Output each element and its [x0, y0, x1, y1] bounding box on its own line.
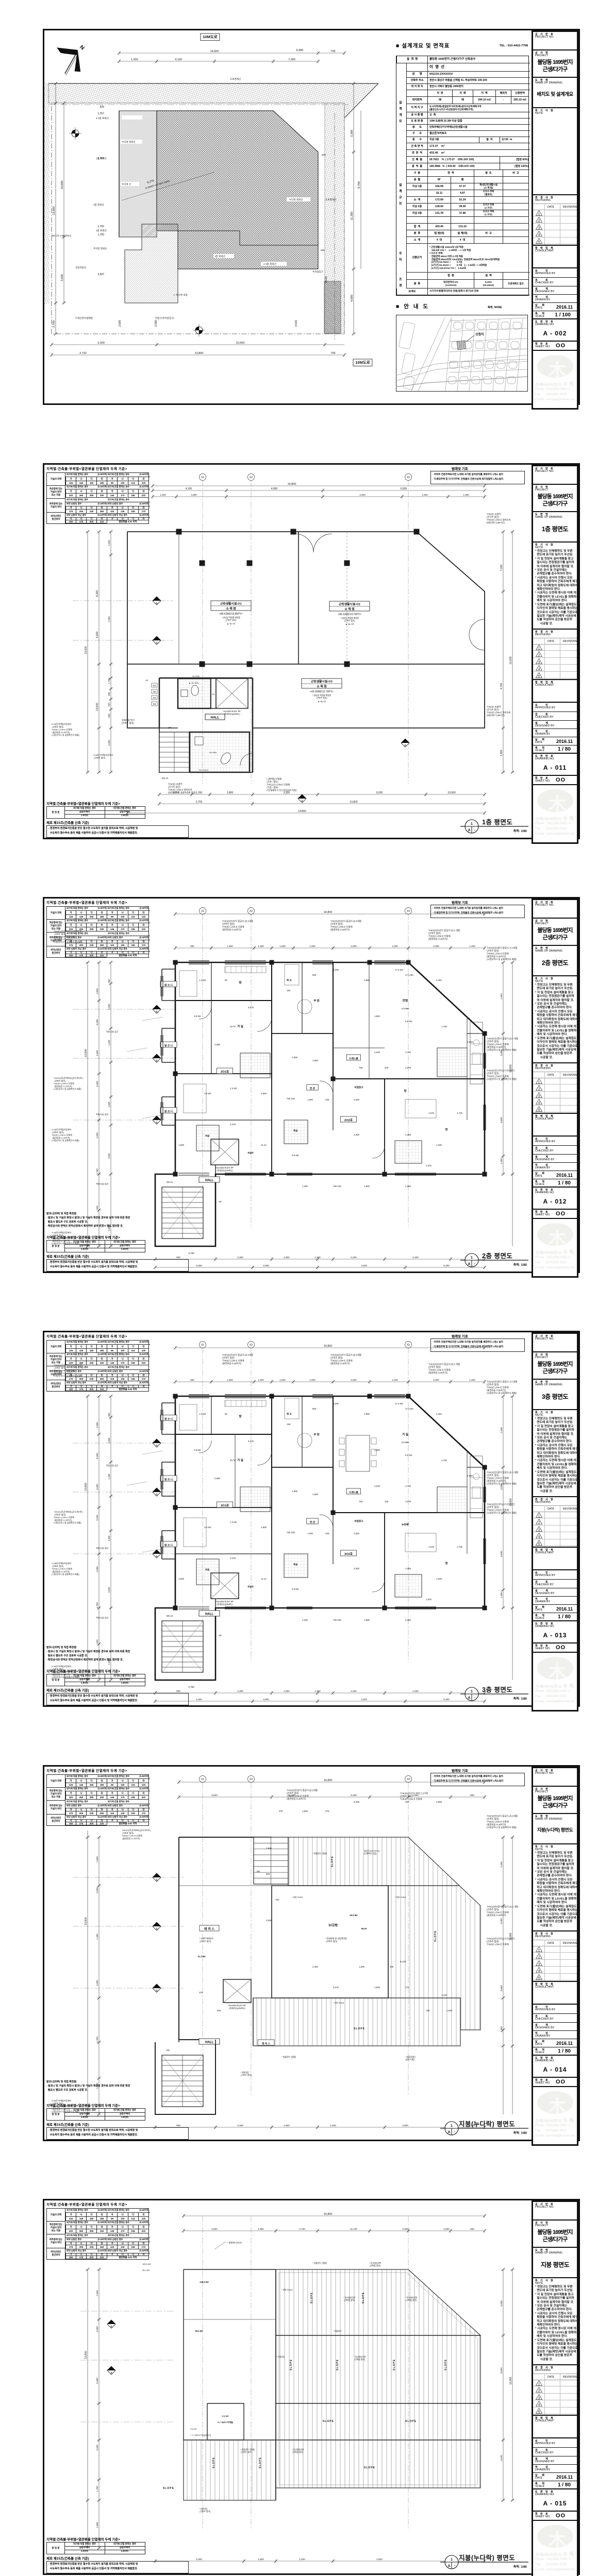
svg-text:625: 625 [322, 154, 326, 156]
svg-text:축척: 1/80: 축척: 1/80 [513, 829, 527, 833]
svg-text:N: N [78, 44, 86, 51]
svg-text:도로경계선: 도로경계선 [230, 77, 241, 81]
svg-text:700: 700 [330, 50, 335, 53]
svg-text:7,300: 7,300 [288, 58, 295, 61]
svg-text:1: 1 [451, 2124, 453, 2128]
svg-text:A: A [468, 829, 470, 833]
svg-text:1,932: 1,932 [131, 58, 138, 61]
svg-text:신청지: 신청지 [475, 332, 484, 336]
svg-text:10,500: 10,500 [236, 342, 245, 345]
svg-text:<- 투수콘 포장: <- 투수콘 포장 [173, 293, 188, 297]
svg-text:700: 700 [330, 352, 335, 355]
svg-text:1: 1 [471, 1690, 473, 1693]
svg-text:525: 525 [321, 249, 325, 251]
svg-text:3,300: 3,300 [97, 342, 105, 345]
svg-text:누다락 외곽선: 누다락 외곽선 [289, 198, 303, 201]
svg-text:3,600: 3,600 [61, 274, 64, 281]
svg-text:2,790: 2,790 [53, 320, 56, 328]
svg-text:1,702: 1,702 [97, 225, 104, 228]
svg-text:지붕(누다락) 평면도: 지붕(누다락) 평면도 [459, 2554, 515, 2562]
svg-text:3,300: 3,300 [351, 130, 354, 137]
svg-text:2층 평면도: 2층 평면도 [482, 1252, 512, 1260]
svg-text:2-3층 외곽선: 2-3층 외곽선 [263, 262, 276, 266]
svg-text:3층 평면도: 3층 평면도 [482, 1686, 512, 1693]
svg-text:1층 외곽선: 1층 외곽선 [93, 203, 104, 207]
svg-text:축척: 1/80: 축척: 1/80 [513, 1263, 527, 1267]
svg-text:6M 도로 1.5M 후퇴선: 6M 도로 1.5M 후퇴선 [52, 234, 71, 238]
svg-text:누다락 선: 누다락 선 [122, 182, 131, 186]
svg-text:10M도로: 10M도로 [203, 35, 217, 39]
svg-text:1층 평면도: 1층 평면도 [482, 818, 512, 826]
svg-text:4,515: 4,515 [325, 276, 328, 283]
svg-text:3,300: 3,300 [296, 49, 303, 52]
svg-text:2,565: 2,565 [119, 320, 122, 327]
svg-text:2-3층 외곽선: 2-3층 외곽선 [96, 116, 109, 120]
svg-text:A: A [468, 1263, 470, 1266]
svg-text:1: 1 [451, 2558, 453, 2562]
svg-text:13,800: 13,800 [53, 207, 56, 215]
svg-text:1,707: 1,707 [97, 157, 104, 160]
svg-text:진입구(주차장입구): 진입구(주차장입구) [155, 316, 174, 320]
svg-text:건축지정선: 건축지정선 [75, 266, 86, 269]
svg-text:10,000: 10,000 [61, 181, 64, 190]
svg-text:지붕(누다락) 평면도: 지붕(누다락) 평면도 [459, 2120, 515, 2128]
svg-text:축척: 1/80: 축척: 1/80 [513, 2131, 527, 2135]
svg-text:1층 외곽선: 1층 외곽선 [96, 229, 107, 232]
svg-text:1: 1 [471, 1256, 473, 1260]
svg-text:A: A [447, 2131, 450, 2134]
svg-text:A: A [468, 1697, 470, 1700]
svg-text:주차장입구: 주차장입구 [312, 270, 323, 274]
svg-text:4,100: 4,100 [175, 58, 182, 61]
svg-text:8,700: 8,700 [358, 181, 361, 189]
svg-text:1,750: 1,750 [97, 233, 104, 236]
svg-text:드레인관이설예정: 드레인관이설예정 [75, 316, 93, 320]
svg-text:축척: 1/80: 축척: 1/80 [513, 2565, 527, 2569]
svg-text:누다락 외곽선: 누다락 외곽선 [122, 140, 136, 144]
svg-text:1: 1 [471, 822, 473, 826]
svg-text:도로경계선: 도로경계선 [325, 198, 336, 201]
svg-text:11,300: 11,300 [351, 212, 354, 220]
svg-text:1층 외곽선: 1층 외곽선 [214, 255, 225, 258]
svg-text:축척: 1/80: 축척: 1/80 [513, 1697, 527, 1701]
svg-text:2,732: 2,732 [79, 352, 87, 355]
svg-text:1,757: 1,757 [97, 112, 104, 115]
svg-text:625: 625 [100, 106, 105, 109]
svg-text:A: A [447, 2565, 450, 2568]
svg-text:14,600: 14,600 [210, 50, 219, 53]
svg-text:2,507: 2,507 [97, 273, 104, 276]
svg-text:10M도로: 10M도로 [355, 360, 370, 365]
svg-text:주차장 외곽선: 주차장 외곽선 [93, 247, 107, 250]
svg-text:2,565: 2,565 [155, 320, 158, 327]
svg-text:13,800: 13,800 [195, 352, 204, 355]
svg-text:4,690: 4,690 [351, 295, 354, 302]
svg-text:4,515: 4,515 [295, 320, 298, 327]
